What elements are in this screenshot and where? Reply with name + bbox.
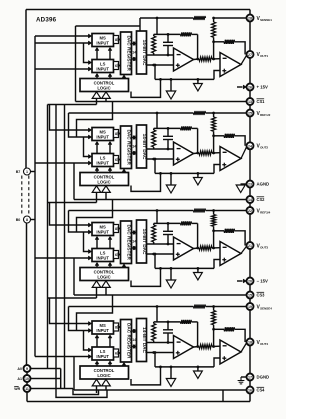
op-amp B feedback resistor ch3 [214,229,246,246]
svg-text:DGND: DGND [257,375,270,380]
op-amp A output wire ch4 [194,345,200,348]
svg-text:14: 14 [132,239,136,243]
riser junction to interstage ch1 [213,42,215,59]
svg-text:14: 14 [132,338,136,342]
pin 24 VOUT2 [247,142,269,149]
control bottom arrows ch2 [92,186,110,203]
svg-text:1: 1 [26,170,28,174]
bus feed to LS ch3 [35,256,92,260]
DAC register channel 1 [121,32,132,75]
chip outline left border mid [26,223,28,365]
svg-text:8: 8 [115,326,117,330]
feedback line op1 ch2 [154,126,198,130]
noninverting riser op-amp A ch2 [154,159,156,173]
svg-text:18: 18 [248,340,252,344]
svg-text:OUT3: OUT3 [260,245,268,249]
14-bit DAC channel 2 [137,125,148,168]
pin 21 VOUT3 [247,242,269,249]
CS riser ch3 [73,258,75,295]
svg-text:6: 6 [115,253,117,257]
arrow MS to DAC register ch3 [118,227,121,230]
MS input register channel 4 [92,321,114,334]
sense ladder resistor vertical ch3 [212,211,216,233]
chip outline left border upper [25,10,27,169]
svg-text:27: 27 [248,53,252,57]
pin 27 VOUT1 [247,51,269,58]
14-bit DAC channel 3 [137,220,148,263]
RFB tap riser ch3 [156,211,158,224]
op-amp B ch4 [220,340,241,364]
bus bracket MS-to-LS ch2 [84,137,92,159]
op-amp B output to VOUT pin ch1 [241,54,247,64]
svg-text:LOGIC: LOGIC [97,275,110,280]
LS input register channel 4 [92,347,114,360]
dashed bus segment B7-B0 [22,176,29,216]
interstage resistor ch2 [199,151,220,155]
op-amp B ch1 [220,53,241,77]
strobe arrows control-to-LS ch2 [95,167,112,172]
svg-text:INPUT: INPUT [96,41,109,46]
pin 1 B7 [16,168,31,175]
reference wire into channel 4 [69,305,247,309]
svg-text:15: 15 [248,293,252,297]
svg-text:INPUT: INPUT [96,256,109,261]
wire CS1 riser from VSENSE jog [75,26,77,102]
LS input register channel 1 [92,60,114,73]
LS bus width box 6 ch4 [114,349,119,357]
svg-text:LOGIC: LOGIC [97,86,110,91]
feedback riser to op1 output ch4 [197,322,199,347]
op-amp A output wire ch2 [194,152,200,155]
control bottom arrows ch4 [92,379,110,393]
DAC output line noninverting ch3 [147,253,174,256]
bus arrows DAC register to DAC ch4 [132,329,136,348]
bus feed to MS lower ch1 [35,41,92,45]
bus stair row-b drop ch2 [69,113,92,139]
ground symbol left ch1 [166,78,175,99]
wire VREF into DAC1 top [139,26,141,31]
svg-text:23: 23 [248,182,252,186]
bus arrows DAC register to DAC ch3 [132,231,136,250]
noninverting hook op-amp B ch4 [214,358,220,367]
ladder resistor ch4 [152,322,156,343]
svg-text:AGND: AGND [257,182,270,187]
feedback riser to op1 output ch2 [197,128,199,153]
strobe arrows LS-to-MS ch1 [95,47,112,59]
control logic channel 1 [80,79,129,92]
op-amp B output to VOUT pin ch2 [241,146,247,159]
bus feed to LS ch1 [35,67,92,71]
op-amp A output wire ch3 [194,247,200,250]
op-amp B output to VOUT pin ch4 [241,342,247,352]
feedback riser to op1 output ch1 [197,34,199,59]
strobe arrow control-to-DAC-register ch2 [122,169,126,173]
op-amp A ch3 [174,237,194,260]
feedback line op1 ch3 [154,221,198,225]
noninverting riser op-amp A ch4 [154,353,156,367]
svg-text:26: 26 [248,85,252,89]
bus stair row-c to ch2 [77,102,113,138]
svg-text:9: 9 [26,367,28,371]
capacitor C ch3 [163,222,173,245]
svg-text:16: 16 [248,388,252,392]
svg-text:LOGIC: LOGIC [97,180,110,185]
arrow LS to DAC register ch3 [118,253,121,256]
ground rail ch1 [155,78,214,80]
LS bus width box 6 ch1 [114,62,119,70]
A1 pin wire [30,378,60,380]
CS1 line [76,101,247,103]
control logic channel 2 [80,173,129,186]
svg-text:14-BIT DAC: 14-BIT DAC [142,327,147,353]
ground symbol left ch2 [166,172,175,193]
bus stair row-a to ch2 [48,105,97,133]
svg-text:13: 13 [248,100,252,104]
pin 22 VREF3/4 [247,207,271,214]
wire pin1 to trunk [30,171,35,173]
svg-text:B0: B0 [16,218,21,222]
svg-text:6: 6 [115,352,117,356]
wire pin8 to trunk [30,219,35,221]
svg-text:20: 20 [248,279,252,283]
svg-text:+ 15V: + 15V [257,85,268,90]
op-amp B feedback resistor ch4 [214,327,246,342]
op-amp B output to VOUT pin ch3 [241,246,247,254]
svg-text:INPUT: INPUT [96,230,109,235]
rail hook to control logic ch4 [131,366,162,385]
svg-text:A0: A0 [17,367,22,371]
A0 bus vertical [47,105,49,369]
CS riser ch2 [73,163,75,200]
pin 28 VSENSE1 [247,15,273,22]
ground symbol left ch4 [166,366,175,387]
svg-text:DAC REGISTER: DAC REGISTER [127,224,132,260]
bus stair row-b drop ch3 [69,211,92,235]
svg-text:CS2: CS2 [257,197,266,202]
node dots on reference wire ch2 [156,112,215,115]
svg-text:INPUT: INPUT [96,328,109,333]
feedback riser to op1 output ch3 [197,223,199,248]
svg-text:8: 8 [115,38,117,42]
strobe arrow control-to-DAC-register ch1 [122,75,126,79]
svg-text:24: 24 [248,144,252,148]
op-amp B ch2 [220,147,241,171]
pin 9 A0 [17,365,30,372]
sense ladder resistor vertical ch1 [212,18,216,43]
svg-text:LOGIC: LOGIC [97,373,110,378]
wire VSENSE1 net (pin28 left run) [140,16,247,20]
svg-text:WR: WR [14,387,20,391]
CS line ch4 [74,389,247,391]
interstage resistor ch4 [199,345,220,349]
strobe arrows LS-to-MS ch4 [95,335,112,347]
svg-text:11: 11 [25,387,29,391]
DGND ground symbol [238,377,247,384]
data bus trunk vertical [34,36,36,357]
sense ladder resistor vertical ch4 [212,307,216,331]
riser junction to interstage ch2 [213,136,215,153]
svg-text:8: 8 [115,227,117,231]
chip outline right border [249,10,251,402]
CS line ch2 [74,199,247,201]
svg-text:14: 14 [132,144,136,148]
svg-text:− 15V: − 15V [257,279,268,284]
svg-text:DAC REGISTER: DAC REGISTER [127,323,132,359]
bus stair row-c to ch3 [77,200,113,233]
WR pin wire [30,388,73,390]
+15V supply arrow [237,85,246,89]
rail hook to control logic ch1 [131,78,162,97]
capacitor C ch2 [163,127,173,150]
wire VSENSE1 upper run [76,25,141,27]
noninverting hook op-amp B ch1 [214,71,220,80]
svg-text:14-BIT DAC: 14-BIT DAC [142,40,147,66]
noninverting riser op-amp A ch3 [154,254,156,268]
sense ladder resistor vertical ch2 [212,113,216,137]
LS bus width box 6 ch3 [114,251,119,259]
svg-text:DAC REGISTER: DAC REGISTER [127,35,132,71]
svg-text:14-BIT DAC: 14-BIT DAC [142,229,147,255]
svg-text:6: 6 [115,158,117,162]
pin 16 CS4 [247,387,266,394]
DAC output line inverting ch2 [147,148,174,150]
ground symbol right ch3 [194,267,203,280]
CS line ch3 [74,294,247,296]
svg-text:8: 8 [115,132,117,136]
AGND ground symbol [236,184,246,193]
op-amp B feedback resistor ch1 [214,40,246,55]
DAC output line inverting ch1 [147,54,174,56]
svg-text:19: 19 [248,305,252,309]
svg-text:CS4: CS4 [257,388,266,393]
svg-text:CS1: CS1 [257,99,266,104]
DAC register channel 4 [121,320,132,363]
WR return loop to CS4 stems [73,389,99,395]
bus arrows DAC register to DAC ch2 [132,136,136,155]
pin 23 AGND [247,181,270,188]
svg-text:OUT2: OUT2 [260,146,268,150]
DAC output line noninverting ch4 [147,351,174,354]
chip outline left border lower segs [26,372,28,402]
title AD396 [36,17,57,24]
svg-text:8: 8 [26,218,28,222]
arrow LS to DAC register ch4 [118,351,121,354]
reference wire into channel 3 [69,209,247,213]
ground symbol right ch2 [194,172,203,185]
op-amp B ch3 [220,242,241,266]
svg-text:6: 6 [115,64,117,68]
DAC output line noninverting ch2 [147,158,174,161]
svg-text:INPUT: INPUT [96,354,109,359]
control logic channel 4 [80,366,129,379]
node dots on reference wire ch3 [156,209,215,212]
pin 25 VREF1/2 [247,110,271,117]
strobe arrows control-to-LS ch1 [95,73,112,78]
arrow MS to DAC register ch1 [118,38,121,41]
wire VSENSE1 jog down [139,18,141,26]
rail hook to control logic ch2 [131,172,162,191]
svg-text:14: 14 [248,198,252,202]
LS bus width box 6 ch2 [114,156,119,164]
op-amp A ch1 [174,48,194,71]
svg-text:25: 25 [248,111,252,115]
LS input register channel 2 [92,154,114,167]
ground symbol right ch1 [194,78,203,91]
svg-text:10: 10 [25,377,29,381]
capacitor C ch1 [163,33,173,56]
node dots on reference wire ch4 [156,305,215,308]
svg-text:DAC REGISTER: DAC REGISTER [127,129,132,165]
pin 13 CS1 [247,98,266,105]
svg-text:B7: B7 [16,170,21,174]
14-bit DAC channel 1 [137,31,148,74]
feedback line op1 ch4 [154,320,198,324]
strobe arrow control-to-DAC-register ch4 [122,362,126,366]
pin 20 − 15V [247,278,268,285]
pin 18 VOUT4 [247,339,269,346]
MS bus width box 8 ch2 [114,130,119,138]
RFB tap riser ch4 [156,307,158,322]
A0 pin wire [30,369,60,389]
riser junction to interstage ch3 [213,231,215,248]
svg-text:AD396: AD396 [36,17,57,24]
MS input register channel 1 [92,34,114,47]
svg-text:CS3: CS3 [257,293,266,298]
-15V supply arrow [237,279,246,283]
ground symbol left ch3 [166,267,175,288]
op-amp A ch4 [174,336,194,359]
A1 return loop to CS4 stems [56,379,107,398]
reference wire into channel 2 [69,111,247,115]
DAC register channel 2 [121,126,132,169]
WR bus vertical [64,105,66,389]
svg-text:SENSE1: SENSE1 [260,18,272,22]
bus stair row-a to ch3 [48,203,97,228]
ladder resistor ch1 [152,34,156,55]
pin 26 + 15V [247,84,268,91]
control logic channel 3 [80,268,129,281]
MS bus width box 8 ch3 [114,225,119,233]
RFB tap riser ch2 [156,113,158,128]
riser junction to interstage ch4 [213,329,215,346]
14-bit DAC channel 4 [137,319,148,362]
svg-text:14-BIT DAC: 14-BIT DAC [142,134,147,160]
MS input register channel 3 [92,223,114,236]
pin 8 B0 [16,216,31,223]
svg-text:OUT1: OUT1 [260,54,268,58]
DAC output line inverting ch3 [147,243,174,245]
noninverting riser op-amp A ch1 [154,65,156,79]
CS riser ch4 [73,357,75,391]
RFB tap riser ch1 [156,18,158,34]
bus bracket MS-to-LS ch3 [84,232,92,254]
svg-text:OUT4: OUT4 [260,342,268,346]
svg-text:INPUT: INPUT [96,67,109,72]
svg-text:REF1/2: REF1/2 [260,113,271,117]
pin 17 DGND [247,374,270,381]
svg-text:SENSE4: SENSE4 [260,306,272,310]
strobe arrows control-to-LS ch3 [95,262,112,267]
arrow MS to DAC register ch2 [118,132,121,135]
noninverting hook op-amp B ch3 [214,260,220,269]
LS input register channel 3 [92,249,114,262]
bus bracket MS-to-LS ch1 [84,43,92,65]
rail hook to control logic ch3 [131,267,162,286]
strobe arrows LS-to-MS ch3 [95,236,112,248]
op-amp B feedback resistor ch2 [214,134,246,146]
svg-text:REF3/4: REF3/4 [260,210,271,214]
svg-text:21: 21 [248,244,252,248]
pin 14 CS2 [247,196,266,203]
svg-text:22: 22 [248,209,252,213]
pin 15 CS3 [247,292,266,299]
arrow MS to DAC register ch4 [118,325,121,328]
control bottom arrows ch3 [92,281,110,298]
bus feed to MS ch1 [35,34,92,38]
ladder resistor ch2 [152,128,156,149]
op-amp A output wire ch1 [194,58,200,61]
CS4 bottom return wire [222,390,224,402]
noninverting hook op-amp B ch2 [214,165,220,174]
ground rail ch4 [155,366,214,368]
feedback line op1 ch1 [154,32,198,36]
ladder resistor ch3 [152,223,156,244]
op-amp A ch2 [174,142,194,165]
A1 bus vertical [55,105,57,379]
arrow LS to DAC register ch1 [118,64,121,67]
bus stair row-b drop ch4 [69,307,92,333]
svg-text:A1: A1 [17,377,22,381]
bus feed to LS ch4 [35,354,92,358]
chip outline top border [26,9,250,11]
svg-text:INPUT: INPUT [96,135,109,140]
svg-text:17: 17 [248,375,252,379]
interstage resistor ch1 [199,57,220,61]
node dots on reference wire ch1 [156,17,215,20]
ground symbol right ch4 [194,366,203,379]
DAC output line noninverting ch1 [147,64,174,67]
interstage resistor ch3 [199,246,220,250]
ground rail ch3 [155,267,214,269]
strobe arrow control-to-DAC-register ch3 [122,264,126,268]
bus stair row-a to ch4 [48,298,97,326]
control bottom arrows ch1 [92,92,110,105]
MS input register channel 2 [92,128,114,141]
pin 19 VSENSE4 [247,303,273,310]
capacitor C ch4 [163,321,173,344]
pin 10 A1 [17,375,30,382]
ground rail ch2 [155,172,214,174]
svg-text:28: 28 [248,16,252,20]
arrow LS to DAC register ch2 [118,158,121,161]
MS bus width box 8 ch1 [114,36,119,44]
chip outline bottom border [27,401,250,403]
pin 11 WR [14,385,30,392]
strobe arrows LS-to-MS ch2 [95,141,112,153]
svg-text:INPUT: INPUT [96,161,109,166]
svg-text:14: 14 [132,50,136,54]
DAC register channel 3 [121,221,132,264]
bus arrows DAC register to DAC ch1 [132,42,136,61]
bus bracket MS-to-LS ch4 [84,331,92,353]
strobe arrows control-to-LS ch4 [95,361,112,366]
MS bus width box 8 ch4 [114,323,119,331]
bus stair row-c to ch4 [77,295,113,331]
bus feed to LS ch2 [35,161,92,165]
DAC output line inverting ch4 [147,342,174,344]
